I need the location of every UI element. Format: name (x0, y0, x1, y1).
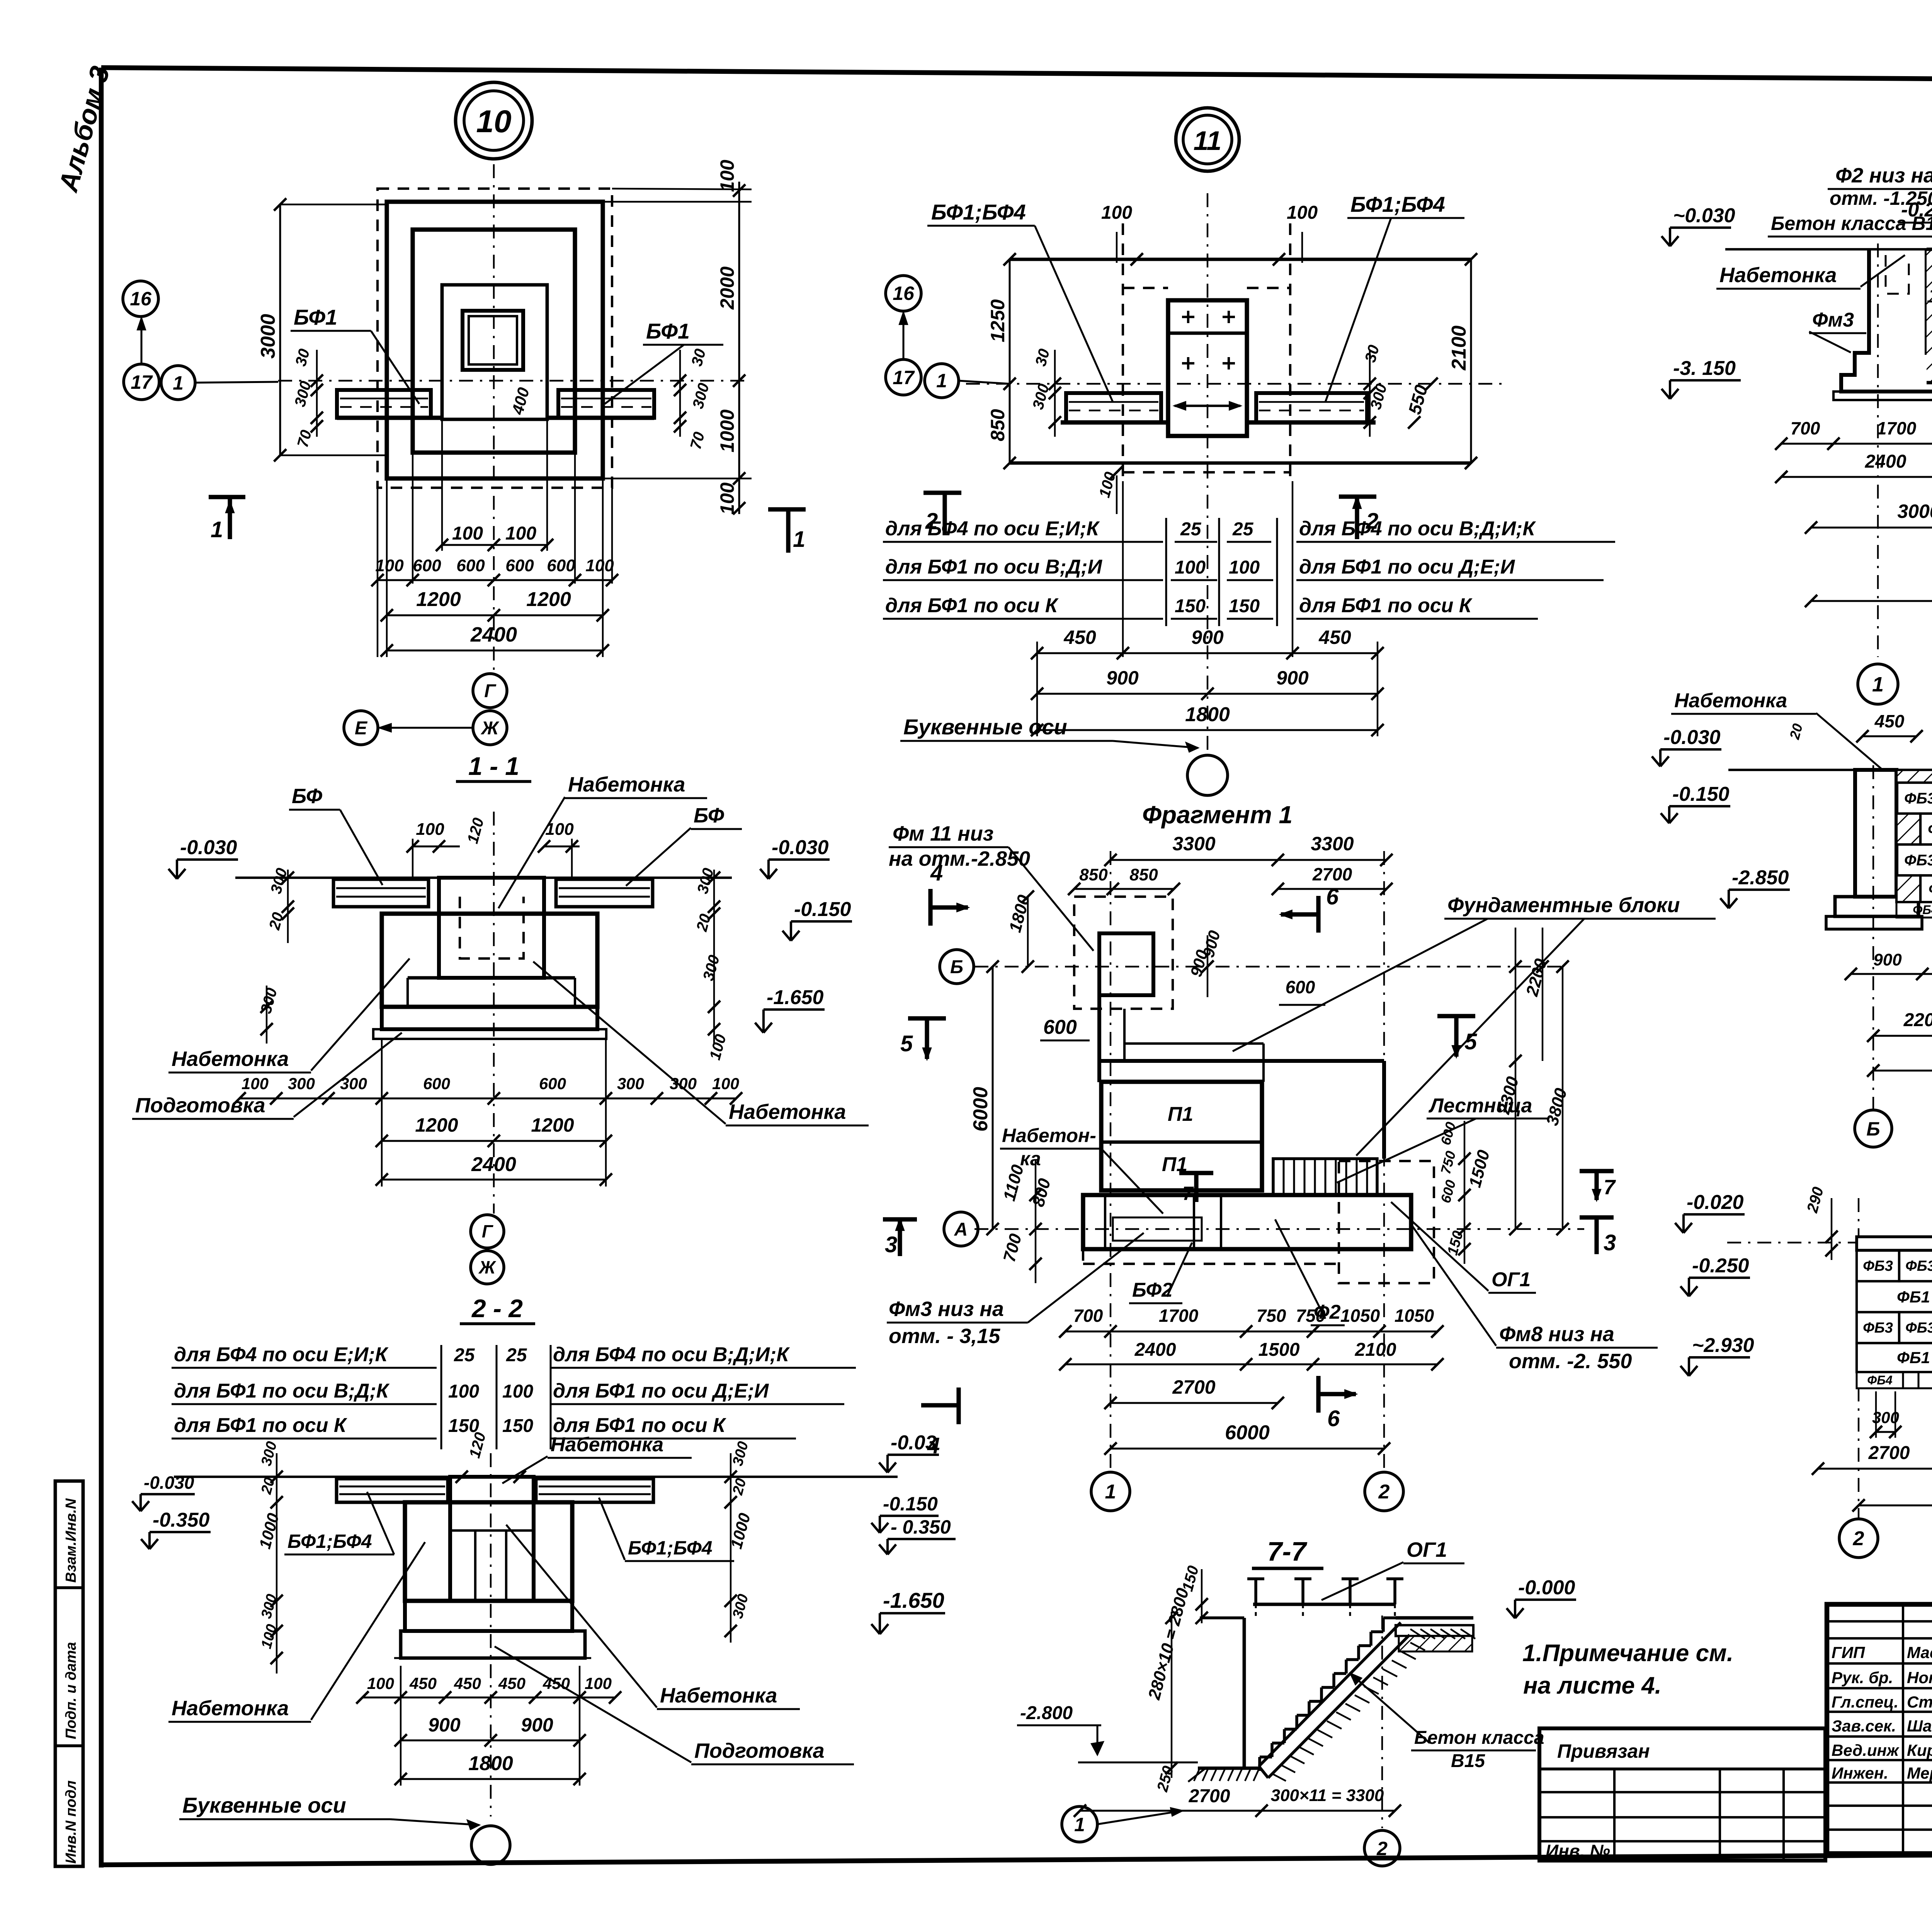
axis bubble Zh (473, 711, 507, 745)
svg-text:100: 100 (452, 523, 483, 544)
dims 7-7 bottom (1080, 1810, 1395, 1812)
svg-text:100: 100 (502, 1381, 533, 1402)
svg-text:-0.150: -0.150 (794, 898, 851, 921)
svg-text:100: 100 (367, 1674, 394, 1692)
svg-text:ФБ4: ФБ4 (1867, 1373, 1893, 1387)
plan 10 dashed outline (378, 189, 612, 488)
svg-text:~2.930: ~2.930 (1692, 1334, 1754, 1357)
section mark 1 right (768, 507, 806, 511)
svg-text:300: 300 (340, 1074, 367, 1093)
dim top row2 (1074, 888, 1174, 890)
svg-text:Фрагмент 1: Фрагмент 1 (1142, 801, 1293, 829)
svg-text:850: 850 (987, 409, 1009, 441)
blocks 5-5 r1 (1857, 1250, 1899, 1281)
svg-text:17: 17 (131, 371, 153, 393)
svg-text:900: 900 (1873, 950, 1902, 969)
svg-text:для БФ4 по оси В;Д;И;К: для БФ4 по оси В;Д;И;К (553, 1343, 790, 1366)
svg-text:450: 450 (454, 1674, 481, 1692)
svg-text:~0.030: ~0.030 (1673, 204, 1735, 227)
svg-text:300: 300 (670, 1074, 697, 1093)
beam BF1 right (558, 390, 654, 418)
handrail 7-7 (1253, 1603, 1396, 1606)
svg-text:2: 2 (1378, 1481, 1390, 1503)
svg-text:600: 600 (1286, 977, 1315, 997)
svg-text:ФБ3: ФБ3 (1863, 1258, 1893, 1274)
svg-text:для БФ1 по оси К: для БФ1 по оси К (885, 594, 1059, 617)
svg-text:ка: ка (1020, 1148, 1041, 1170)
svg-text:-0.030: -0.030 (772, 836, 829, 859)
svg-text:900: 900 (1276, 667, 1309, 689)
svg-text:900: 900 (521, 1714, 553, 1736)
dim row 2400 (387, 650, 603, 652)
blocks row5 4-4 (1896, 902, 1932, 918)
svg-text:Инв. №: Инв. № (1546, 1841, 1610, 1861)
stairs plan (1273, 1159, 1377, 1195)
dims 3-3 row2 (1781, 476, 1932, 478)
svg-text:-2.800: -2.800 (1020, 1703, 1073, 1723)
dims 4-4 mid (1851, 973, 1932, 975)
axis arrow 16-17 (141, 318, 143, 364)
axis bubble 1b (925, 364, 959, 398)
sheet frame (101, 68, 1932, 83)
svg-text:16: 16 (893, 283, 915, 304)
axis1 centerline 3-3 (1877, 243, 1879, 657)
svg-text:100: 100 (241, 1074, 269, 1093)
svg-text:100: 100 (585, 1674, 612, 1692)
svg-text:для БФ1 по оси К: для БФ1 по оси К (1299, 594, 1473, 617)
plan 11 top boundary (1010, 258, 1471, 261)
svg-text:300: 300 (617, 1074, 644, 1093)
section mark 2 right (1339, 494, 1376, 499)
svg-text:-0.250: -0.250 (1692, 1255, 1749, 1277)
bottom dims 1-1 row3 (382, 1179, 606, 1181)
svg-text:3: 3 (1604, 1230, 1616, 1255)
svg-text:1: 1 (936, 370, 947, 392)
svg-text:отм. -2. 550: отм. -2. 550 (1509, 1350, 1632, 1373)
svg-text:Инжен.: Инжен. (1832, 1764, 1888, 1782)
left margin stamp boxes (55, 1481, 83, 1866)
plan 10 middle step (413, 230, 575, 453)
right dim chain (738, 182, 740, 514)
dim left 1250-850 (1009, 259, 1011, 463)
svg-text:Фм3: Фм3 (1812, 309, 1854, 331)
nabetonka band 4-4 (1896, 770, 1932, 783)
axis bubble 17b (886, 359, 921, 395)
centerline horizontal 11 (966, 383, 1503, 385)
svg-text:Набетонка: Набетонка (172, 1697, 289, 1720)
svg-text:450: 450 (543, 1674, 570, 1692)
smark 3 right (1580, 1215, 1614, 1219)
svg-text:Рук. бр.: Рук. бр. (1832, 1668, 1893, 1687)
svg-text:Кирьянова: Кирьянова (1907, 1741, 1932, 1759)
svg-text:100: 100 (716, 482, 738, 515)
svg-text:ФБ1: ФБ1 (1897, 1348, 1930, 1367)
dim 6000 left (992, 967, 994, 1229)
smark 6 top (1316, 896, 1320, 933)
wall left vertical (1097, 995, 1101, 1082)
svg-text:Инв.N подл: Инв.N подл (63, 1781, 79, 1864)
ground line 1-1 (235, 877, 732, 879)
svg-text:2000: 2000 (716, 266, 738, 310)
svg-text:-0.03: -0.03 (891, 1432, 937, 1454)
svg-text:Набетонка: Набетонка (660, 1684, 777, 1707)
svg-text:ФБ3: ФБ3 (1905, 1320, 1932, 1336)
axis bubble 2-7 (1364, 1830, 1400, 1866)
svg-text:100: 100 (505, 523, 536, 544)
svg-text:850: 850 (1129, 865, 1158, 884)
dim row 450-900-450 (1037, 652, 1378, 654)
svg-text:Фундаментные блоки: Фундаментные блоки (1447, 894, 1680, 917)
axis bubble B (940, 950, 974, 984)
axis bubble 1f (1091, 1472, 1130, 1511)
axis bubble 16b (886, 276, 921, 311)
plan 11 lower boundary (1010, 461, 1471, 465)
svg-text:900: 900 (428, 1714, 461, 1736)
svg-text:ФБ4: ФБ4 (1913, 903, 1932, 917)
svg-text:Г: Г (482, 1221, 493, 1241)
svg-text:П1: П1 (1168, 1103, 1193, 1125)
foundation body 2-2 (405, 1502, 572, 1601)
earth hatch landing (1410, 1629, 1425, 1639)
svg-text:1200: 1200 (526, 588, 571, 611)
axis2 line 5-5 (1858, 1388, 1859, 1519)
plan 11 dashed band (1122, 223, 1124, 481)
axis bubble 17 (124, 364, 159, 400)
svg-text:Подготовка: Подготовка (135, 1094, 265, 1117)
svg-text:-1.650: -1.650 (767, 986, 824, 1009)
svg-text:2400: 2400 (470, 623, 517, 646)
smark 5 left (908, 1016, 946, 1020)
title block outer (1827, 1604, 1932, 1854)
foundation body 1-1 (382, 914, 597, 1007)
svg-text:-0.250: -0.250 (1901, 199, 1932, 221)
svg-text:900: 900 (1106, 667, 1139, 689)
svg-text:ФБ3: ФБ3 (1863, 1320, 1893, 1336)
svg-text:ФБ3: ФБ3 (1904, 790, 1932, 807)
svg-text:7: 7 (1604, 1176, 1616, 1199)
svg-text:150: 150 (1229, 596, 1260, 616)
svg-text:2: 2 (1853, 1527, 1864, 1550)
wall top horizontal (1099, 1059, 1384, 1063)
smark 6 bottom (1316, 1376, 1320, 1413)
svg-text:1: 1 (1074, 1814, 1085, 1835)
svg-text:-0.020: -0.020 (1687, 1191, 1744, 1214)
node 11 bubble (1176, 108, 1239, 171)
letter axis bubble 2-2 (471, 1826, 510, 1864)
svg-text:-1.650: -1.650 (883, 1588, 944, 1612)
svg-text:2100: 2100 (1355, 1340, 1396, 1360)
svg-text:150: 150 (1175, 596, 1206, 616)
svg-text:2400: 2400 (471, 1153, 516, 1176)
left dim chain 2-2 (276, 1453, 277, 1674)
svg-text:850: 850 (1079, 865, 1108, 884)
svg-text:-0.000: -0.000 (1518, 1577, 1575, 1599)
svg-text:А: А (954, 1219, 968, 1240)
bottom dims 1-1 row2 (382, 1140, 606, 1142)
svg-text:БФ1;БФ4: БФ1;БФ4 (1350, 192, 1445, 216)
svg-text:1200: 1200 (415, 1114, 458, 1136)
fm11 dashed pit (1074, 897, 1173, 1009)
axis B line (975, 966, 1563, 967)
plan 10 inner step (442, 285, 547, 419)
svg-text:БФ1: БФ1 (294, 305, 337, 329)
slab right 1-1 (556, 879, 653, 907)
centerline horizontal (278, 380, 750, 381)
svg-text:600: 600 (547, 556, 575, 575)
centerline 1-1 (493, 812, 495, 1214)
svg-text:-0.030: -0.030 (1663, 726, 1721, 749)
svg-text:6: 6 (1326, 884, 1339, 909)
frag bottom row1 (1065, 1331, 1437, 1333)
svg-text:25: 25 (506, 1345, 527, 1365)
svg-text:Буквенные оси: Буквенные оси (903, 715, 1067, 739)
dims 4-4 row3 (1873, 1070, 1932, 1072)
svg-text:100: 100 (1287, 203, 1318, 223)
slab P1 (1101, 1082, 1262, 1190)
dashed bottom edge (1083, 1263, 1339, 1265)
svg-text:БФ2: БФ2 (1132, 1279, 1173, 1301)
svg-text:2: 2 (1376, 1838, 1388, 1859)
blocks row1 4-4 (1896, 783, 1932, 814)
svg-text:1 - 1: 1 - 1 (468, 752, 519, 780)
smark 3 left (883, 1217, 917, 1221)
svg-text:для БФ4 по оси Е;И;К: для БФ4 по оси Е;И;К (174, 1343, 389, 1366)
svg-text:3300: 3300 (1311, 833, 1354, 855)
svg-text:Шайкратво: Шайкратво (1907, 1717, 1932, 1735)
svg-text:Б: Б (1866, 1118, 1880, 1140)
svg-text:300×11 = 3300: 300×11 = 3300 (1271, 1786, 1384, 1805)
dims 5-5 row3 (1859, 1505, 1932, 1507)
axis bubble A (944, 1212, 978, 1246)
svg-text:Гл.спец.: Гл.спец. (1832, 1693, 1898, 1711)
svg-text:7-7: 7-7 (1267, 1536, 1307, 1566)
ground line 2-2 (174, 1476, 898, 1478)
svg-text:Набетонка: Набетонка (551, 1433, 663, 1456)
bottom dims 2-2 row3 (401, 1778, 580, 1780)
svg-text:5: 5 (900, 1031, 913, 1056)
svg-text:100: 100 (448, 1381, 479, 1402)
dims 3-3 row4 (1811, 600, 1932, 602)
plan 10 outer slab (387, 202, 603, 478)
dims 3-3 row1 (1781, 443, 1932, 445)
svg-text:100: 100 (1175, 557, 1206, 578)
svg-text:Е: Е (355, 718, 368, 739)
axis bubble 2f (1365, 1472, 1403, 1511)
dim row 900-900 (1037, 693, 1378, 695)
svg-text:1500: 1500 (1259, 1340, 1300, 1360)
frag bottom row3 (1111, 1402, 1278, 1404)
svg-text:для БФ1 по оси В;Д;И: для БФ1 по оси В;Д;И (885, 556, 1103, 578)
svg-text:-0.150: -0.150 (1672, 783, 1730, 805)
stairs 7-7 (1383, 1616, 1396, 1619)
svg-text:1050: 1050 (1340, 1306, 1380, 1326)
svg-text:1800: 1800 (468, 1752, 513, 1775)
svg-text:ФБ2: ФБ2 (1929, 881, 1932, 897)
svg-text:1250: 1250 (987, 299, 1009, 342)
dims 3-3 row3 (1811, 527, 1932, 529)
dims 5-5 row2 (1818, 1468, 1932, 1470)
blocks 5-5 r4 (1857, 1343, 1932, 1372)
svg-text:- 0.350: - 0.350 (891, 1516, 951, 1538)
blocks 5-5 r2 (1857, 1281, 1932, 1312)
svg-text:-3. 150: -3. 150 (1673, 357, 1736, 380)
svg-text:10: 10 (476, 104, 511, 139)
svg-text:для БФ1 по оси Д;Е;И: для БФ1 по оси Д;Е;И (553, 1380, 769, 1402)
svg-text:25: 25 (454, 1345, 475, 1365)
svg-text:-0.500: -0.500 (1930, 281, 1932, 300)
svg-text:600: 600 (413, 556, 441, 575)
axis bubble 1-7 (1062, 1806, 1097, 1842)
section mark 1 left (209, 495, 245, 499)
svg-text:150: 150 (502, 1416, 533, 1436)
svg-text:Ж: Ж (480, 718, 500, 739)
svg-text:1: 1 (173, 372, 184, 394)
dim right 2100 (1470, 259, 1472, 463)
smark 5 right (1437, 1014, 1475, 1018)
svg-text:-0.030: -0.030 (180, 836, 237, 859)
pier fm3 (1841, 249, 1932, 392)
svg-text:БФ1;БФ4: БФ1;БФ4 (287, 1531, 372, 1552)
svg-text:Масленников: Масленников (1907, 1643, 1932, 1662)
slab left 1-1 (333, 879, 429, 907)
svg-text:Набетонка: Набетонка (1719, 264, 1837, 287)
bottom dims 2-2 row1 (362, 1697, 615, 1699)
dim 3000 left (279, 204, 281, 455)
column cup (463, 311, 523, 370)
svg-text:2700: 2700 (1312, 864, 1352, 884)
pier 1-1 (439, 878, 544, 978)
svg-text:отм. - 3,15: отм. - 3,15 (889, 1325, 1000, 1348)
centerline 2-2 (490, 1453, 492, 1817)
svg-text:-0.030: -0.030 (144, 1473, 194, 1493)
svg-text:600: 600 (505, 556, 534, 575)
smark 7 right (1580, 1169, 1614, 1173)
svg-text:Ф2 низ на: Ф2 низ на (1835, 164, 1932, 187)
column marks (1182, 316, 1194, 318)
section mark 2 left (923, 490, 961, 495)
svg-text:450: 450 (1318, 627, 1351, 648)
svg-text:600: 600 (539, 1074, 566, 1093)
svg-text:2400: 2400 (1865, 451, 1906, 472)
svg-text:БФ1;БФ4: БФ1;БФ4 (628, 1537, 713, 1559)
svg-text:25: 25 (1232, 519, 1254, 540)
svg-text:ГИП: ГИП (1832, 1643, 1865, 1662)
landing 7-7 (1396, 1616, 1473, 1620)
beam right 11 (1256, 393, 1367, 422)
svg-text:2: 2 (925, 509, 938, 534)
svg-text:БФ1: БФ1 (646, 319, 690, 343)
svg-text:ФБ2: ФБ2 (1928, 821, 1932, 838)
blocks row3 4-4 (1896, 844, 1932, 875)
svg-text:17: 17 (893, 367, 915, 388)
earth hatch 7-7 (1271, 1773, 1286, 1781)
blocks row2 4-4 (1896, 814, 1920, 844)
svg-text:для БФ1 по оси В;Д;К: для БФ1 по оси В;Д;К (174, 1380, 390, 1402)
svg-text:1: 1 (1872, 673, 1884, 696)
slab right 2-2 (536, 1479, 653, 1502)
svg-text:100: 100 (585, 556, 614, 575)
dims 4-4 row2 (1873, 1035, 1932, 1037)
axis Zh 1-1 (471, 1251, 504, 1284)
dim top row1 (1111, 859, 1386, 861)
svg-text:Г: Г (484, 681, 497, 701)
axis arrow 16-17b (903, 313, 905, 359)
svg-text:2 - 2: 2 - 2 (471, 1294, 523, 1323)
svg-text:БФ: БФ (292, 785, 322, 808)
svg-text:1700: 1700 (1159, 1306, 1199, 1326)
svg-text:ОГ1: ОГ1 (1406, 1538, 1447, 1561)
svg-text:700: 700 (1073, 1306, 1103, 1326)
bottom dims 2-2 row2 (401, 1740, 580, 1742)
svg-text:900: 900 (1191, 627, 1224, 648)
blocks row4 4-4 (1896, 875, 1920, 902)
svg-text:3300: 3300 (1172, 833, 1215, 855)
svg-text:Зав.сек.: Зав.сек. (1832, 1717, 1896, 1735)
blocks 5-5 r3 (1857, 1312, 1899, 1343)
svg-text:-0.350: -0.350 (153, 1509, 210, 1531)
svg-text:на отм.-2.850: на отм.-2.850 (889, 847, 1030, 870)
svg-text:700: 700 (1791, 418, 1820, 438)
smark 4 top (928, 889, 932, 926)
band along axis A (1083, 1195, 1411, 1249)
svg-text:Фм8 низ на: Фм8 низ на (1499, 1323, 1614, 1346)
axis bubble B4 (1855, 1110, 1892, 1147)
svg-text:25: 25 (1180, 519, 1202, 540)
dim row 100-100 (442, 544, 547, 546)
concrete mass hatched (1927, 249, 1932, 383)
svg-text:100: 100 (1229, 557, 1260, 578)
axis A line (975, 1228, 1584, 1230)
svg-text:Буквенные оси: Буквенные оси (182, 1793, 346, 1817)
svg-text:Фм 11 низ: Фм 11 низ (893, 822, 993, 845)
svg-text:6: 6 (1327, 1406, 1340, 1431)
svg-text:Набетон-: Набетон- (1002, 1125, 1096, 1146)
svg-text:100: 100 (1101, 203, 1132, 223)
svg-text:В15: В15 (1451, 1751, 1485, 1771)
svg-text:450: 450 (1874, 711, 1905, 731)
axis bubble 16 (123, 281, 158, 317)
svg-text:1: 1 (211, 517, 223, 542)
axis B line 4-4 (1872, 765, 1874, 1109)
svg-text:6000: 6000 (969, 1087, 992, 1132)
svg-text:1200: 1200 (416, 588, 461, 611)
wall right step (1382, 1061, 1386, 1159)
base slab 2-2 (405, 1601, 572, 1631)
svg-text:7: 7 (1182, 1183, 1194, 1204)
svg-text:Фм3 низ на: Фм3 низ на (889, 1297, 1004, 1321)
axis line 2-7 (1381, 1616, 1383, 1828)
axis bubble 1-3 (1858, 664, 1898, 704)
svg-text:для БФ4 по оси Е;И;К: для БФ4 по оси Е;И;К (885, 518, 1100, 540)
svg-text:11: 11 (1194, 126, 1222, 156)
svg-text:600: 600 (1043, 1016, 1077, 1039)
svg-text:Подготовка: Подготовка (694, 1739, 825, 1762)
svg-text:1.Примечание см.: 1.Примечание см. (1522, 1640, 1733, 1667)
axis 1 line (1110, 851, 1111, 1469)
svg-text:1700: 1700 (1877, 418, 1917, 438)
svg-text:100: 100 (375, 556, 404, 575)
column block 11 (1168, 300, 1247, 436)
svg-text:100: 100 (716, 160, 738, 192)
svg-text:БФ: БФ (694, 804, 724, 827)
pier left 4-4 (1855, 770, 1896, 897)
svg-text:Набетонка: Набетонка (568, 773, 685, 796)
svg-text:Мерзлякова: Мерзлякова (1907, 1764, 1932, 1782)
svg-text:БФ1;БФ4: БФ1;БФ4 (931, 200, 1026, 224)
svg-text:3000: 3000 (257, 314, 279, 359)
zero line 4-4 (1728, 769, 1932, 771)
svg-text:1200: 1200 (531, 1114, 574, 1136)
